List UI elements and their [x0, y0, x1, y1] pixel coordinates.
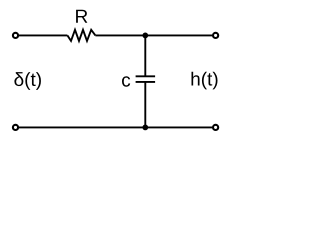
label delta(t) input signal	[14, 72, 41, 90]
resistor R	[67, 30, 95, 41]
terminal input bottom	[13, 125, 18, 130]
node top junction	[142, 33, 148, 39]
terminal input top (left, δ side)	[13, 33, 18, 38]
wire capacitor bottom plate to bottom node	[144, 82, 146, 127]
label c (value of capacitor)	[122, 76, 130, 86]
label R (value of resistor)	[76, 10, 87, 23]
terminal output top (right, h side)	[213, 33, 218, 38]
label h(t) output signal	[192, 72, 218, 90]
wire bottom rail	[19, 126, 213, 128]
capacitor c (plates)	[136, 76, 156, 82]
node bottom junction	[142, 125, 148, 131]
wire top node to capacitor top plate	[144, 35, 146, 76]
wire input terminal to resistor	[19, 34, 68, 36]
wire resistor to output terminal	[95, 34, 212, 36]
terminal output bottom	[213, 125, 218, 130]
